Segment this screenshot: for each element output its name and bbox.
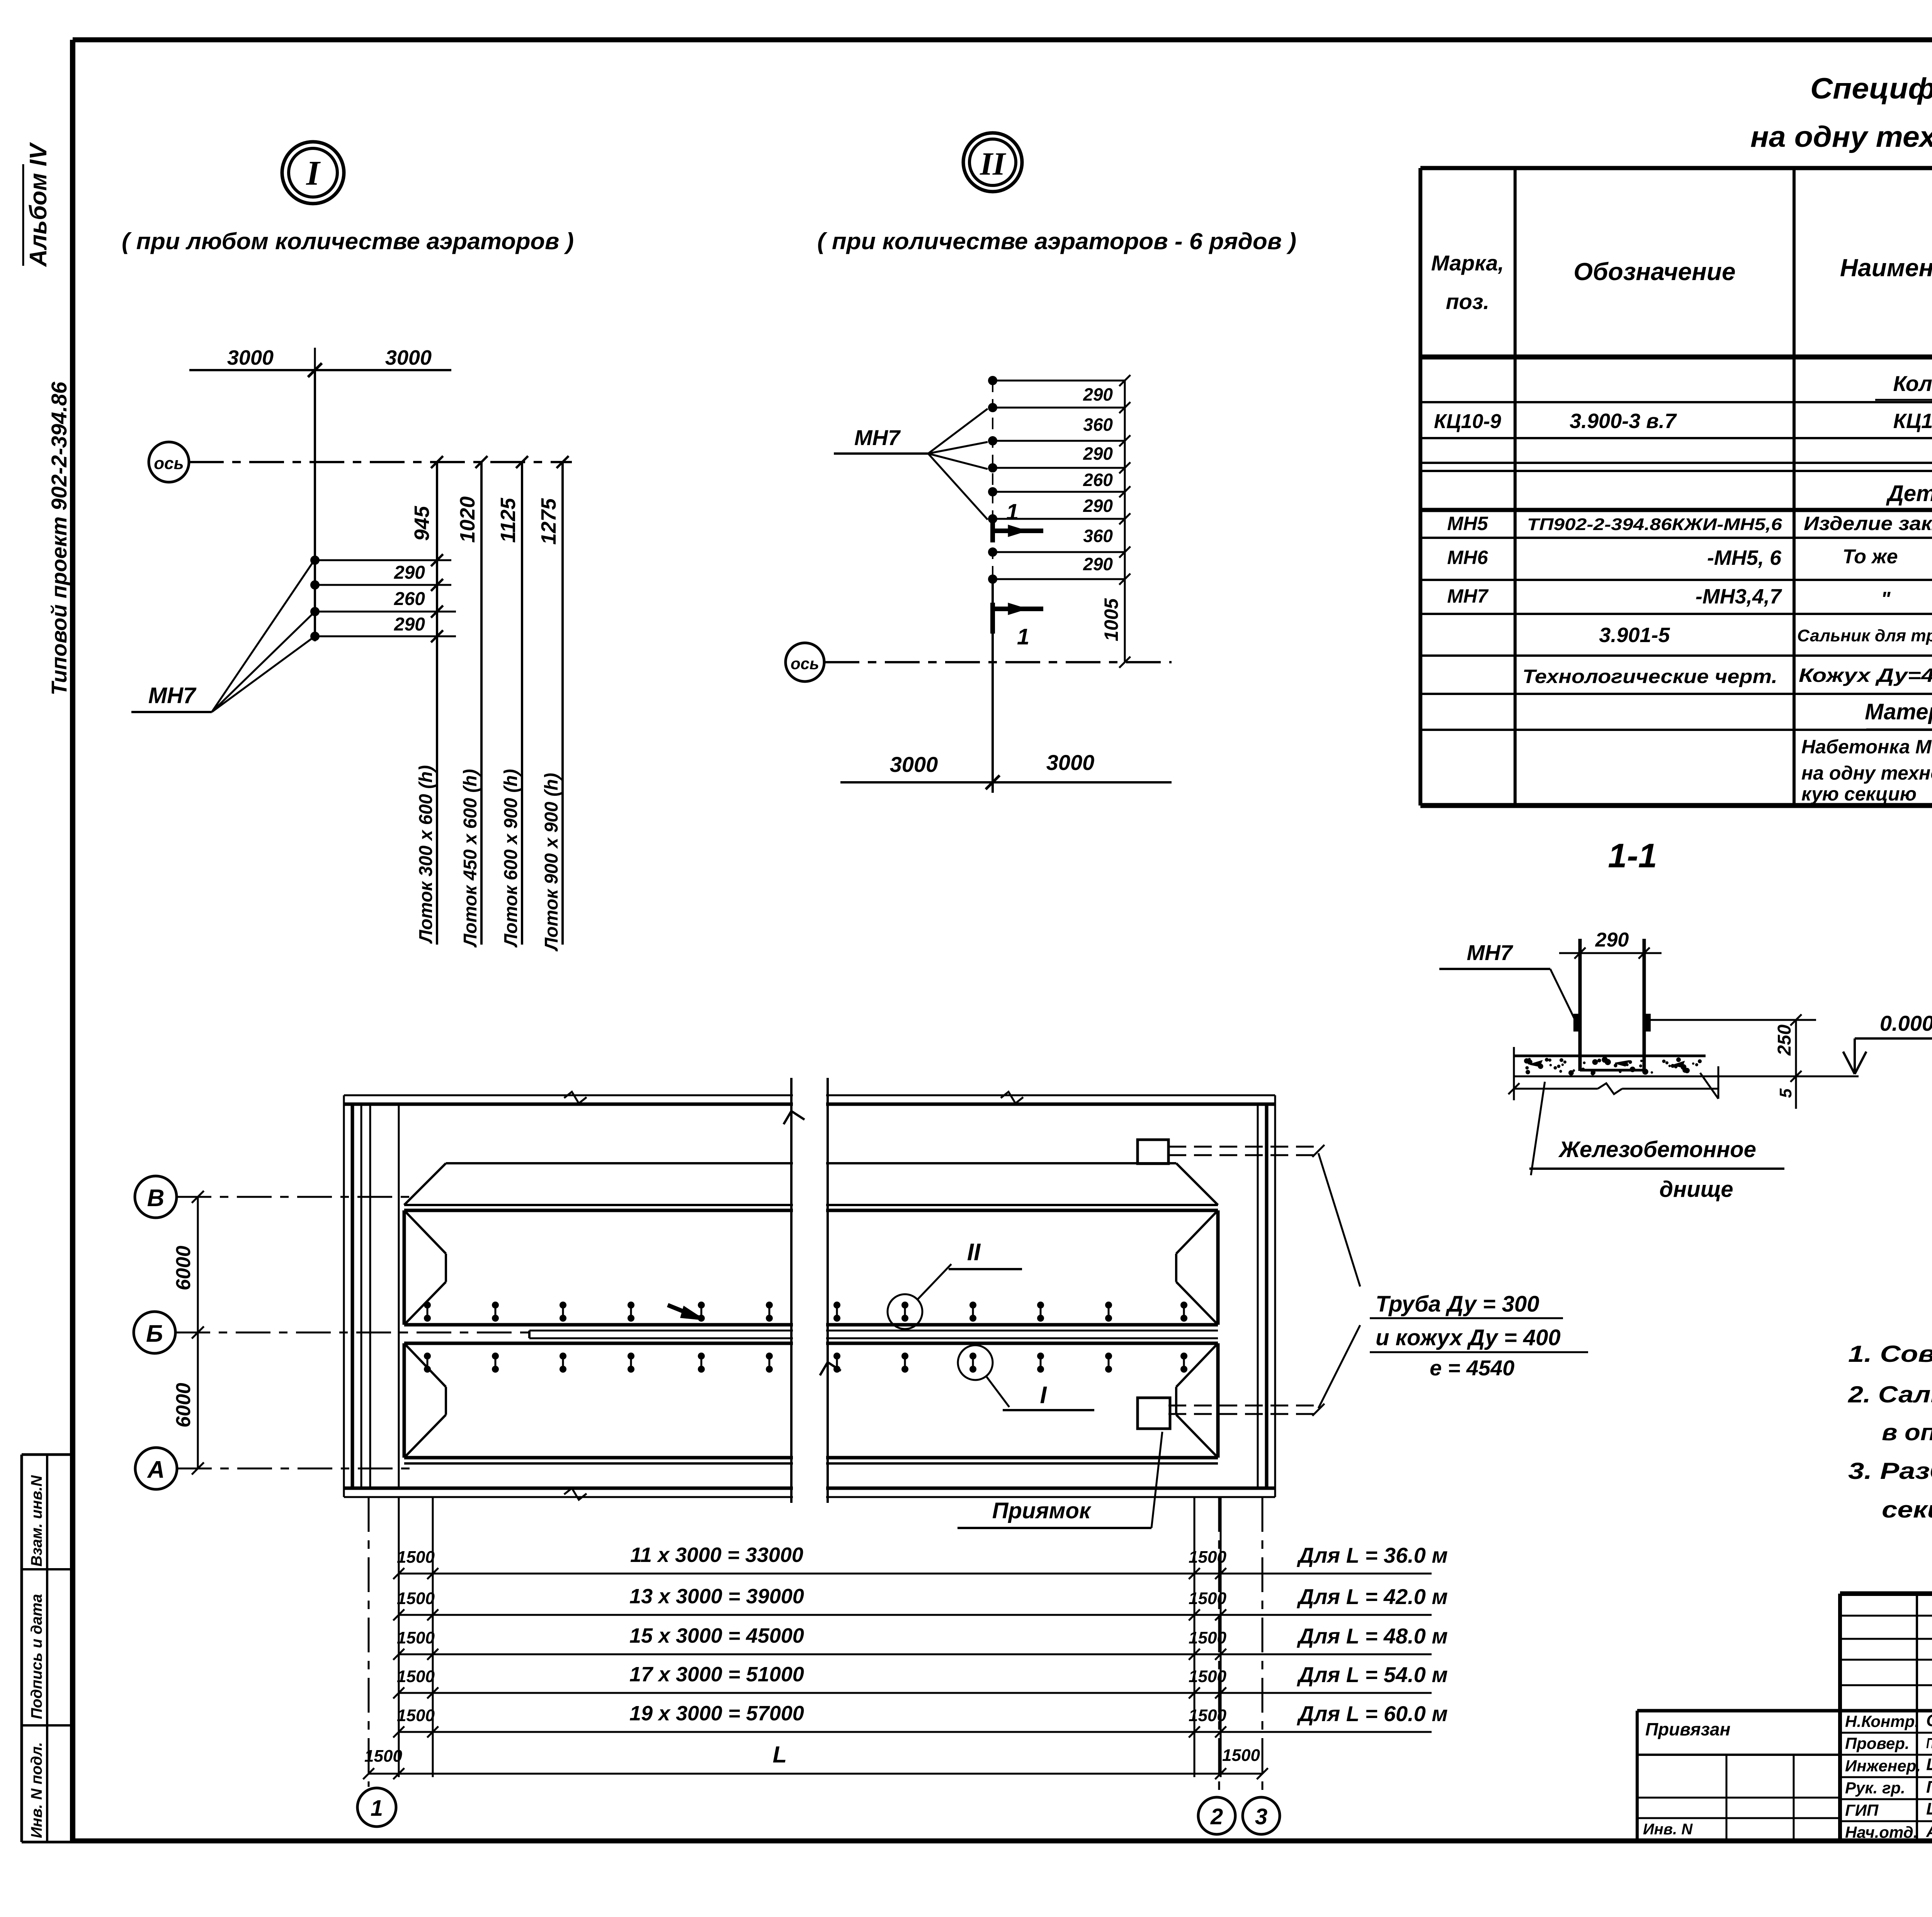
svg-text:I: I [306, 154, 321, 192]
svg-text:( при любом количестве: ( при любом количестве аэраторов ) [122, 228, 574, 254]
svg-text:МН7: МН7 [1447, 585, 1489, 607]
svg-text:1: 1 [1017, 624, 1029, 649]
svg-text:1: 1 [371, 1796, 383, 1821]
svg-text:6000: 6000 [172, 1246, 195, 1290]
svg-text:МН5: МН5 [1447, 513, 1488, 534]
svg-text:260: 260 [1083, 470, 1113, 490]
svg-text:3.901-5: 3.901-5 [1599, 624, 1670, 647]
svg-text:Для L = 54.0 м: Для L = 54.0 м [1297, 1662, 1448, 1687]
svg-text:-МН3,4,7: -МН3,4,7 [1696, 585, 1782, 608]
svg-text:3. Разбивка закладных и: 3. Разбивка закладных изделий для средни… [1848, 1458, 1932, 1484]
svg-text:1-1: 1-1 [1608, 836, 1657, 875]
svg-text:Набетонка М-150: Набетонка М-150 [1801, 736, 1932, 758]
svg-text:В: В [147, 1185, 165, 1212]
svg-text:5: 5 [1776, 1088, 1795, 1098]
svg-text:Н.Контр.: Н.Контр. [1845, 1712, 1919, 1730]
svg-text:17 х 3000 = 51000: 17 х 3000 = 51000 [629, 1663, 804, 1686]
svg-text:А: А [147, 1456, 165, 1483]
svg-text:945: 945 [410, 506, 434, 541]
svg-text:290: 290 [394, 563, 425, 583]
svg-text:Марка,: Марка, [1431, 251, 1504, 275]
svg-text:МН7: МН7 [854, 425, 901, 450]
svg-text:днище: днище [1659, 1177, 1733, 1202]
svg-text:II: II [980, 146, 1007, 182]
svg-text:290: 290 [394, 614, 425, 635]
svg-text:Привязан: Привязан [1645, 1719, 1730, 1739]
svg-text:19 х 3000 = 57000: 19 х 3000 = 57000 [629, 1702, 804, 1725]
svg-text:1. Совместно с данным: 1. Совместно с данным см. лл. КЖ-32,33. [1848, 1341, 1932, 1367]
svg-text:в опалубку при бетониров: в опалубку при бетонировании днища. [1882, 1419, 1932, 1445]
svg-text:I: I [1040, 1382, 1047, 1409]
svg-text:Провер.: Провер. [1845, 1734, 1910, 1752]
svg-text:Гарбуз: Гарбуз [1926, 1778, 1932, 1796]
svg-text:е = 4540: е = 4540 [1430, 1356, 1515, 1380]
svg-text:Цветкова: Цветкова [1926, 1755, 1932, 1774]
svg-text:Лоток 900 х 900 (h): Лоток 900 х 900 (h) [541, 773, 562, 952]
svg-text:Взам. инв.N: Взам. инв.N [28, 1475, 45, 1567]
svg-text:Изделие закладное МН5: Изделие закладное МН5 [1804, 513, 1932, 534]
svg-text:Лоток 300 х 600 (h): Лоток 300 х 600 (h) [416, 765, 436, 944]
svg-text:290: 290 [1595, 929, 1629, 951]
svg-text:0.000: 0.000 [1880, 1011, 1932, 1035]
svg-text:Лоток 450 х 600 (h): Лоток 450 х 600 (h) [460, 769, 481, 948]
svg-text:Инженер.: Инженер. [1845, 1757, 1921, 1775]
svg-text:КЦ10-6: КЦ10-6 [1893, 410, 1932, 433]
svg-text:-МН5, 6: -МН5, 6 [1707, 546, 1782, 569]
svg-text:3: 3 [1255, 1804, 1267, 1829]
svg-text:1500: 1500 [1189, 1628, 1226, 1647]
svg-text:250: 250 [1774, 1025, 1795, 1056]
svg-text:Кожух Ду=400 е=4540: Кожух Ду=400 е=4540 [1799, 664, 1932, 686]
svg-text:Альбом IV: Альбом IV [25, 142, 52, 267]
svg-text:секций аналогична данной: секций аналогична данной. [1882, 1497, 1932, 1523]
svg-text:То же: То же [1842, 546, 1898, 568]
svg-text:Рук. гр.: Рук. гр. [1845, 1779, 1905, 1797]
svg-text:1005: 1005 [1100, 598, 1122, 641]
svg-text:Альтшулер: Альтшулер [1926, 1822, 1932, 1841]
svg-text:Приямок: Приямок [992, 1498, 1092, 1523]
svg-text:290: 290 [1083, 444, 1113, 464]
svg-text:290: 290 [1083, 496, 1113, 516]
svg-text:290: 290 [1083, 384, 1113, 404]
svg-text:ТП902-2-394.86КЖИ-МН5,6: ТП902-2-394.86КЖИ-МН5,6 [1527, 515, 1782, 534]
svg-text:МН7: МН7 [1467, 940, 1514, 965]
svg-text:3000: 3000 [385, 346, 432, 369]
svg-text:1500: 1500 [397, 1548, 435, 1567]
svg-text:Труба Ду = 300: Труба Ду = 300 [1376, 1292, 1539, 1317]
svg-text:3000: 3000 [227, 346, 274, 369]
svg-text:Для L = 36.0 м: Для L = 36.0 м [1297, 1543, 1448, 1567]
svg-text:Железобетонное: Железобетонное [1558, 1137, 1756, 1162]
svg-text:Инв. N подл.: Инв. N подл. [28, 1742, 45, 1838]
svg-text:кую секцию: кую секцию [1801, 783, 1917, 805]
svg-text:Типовой проект 902-2-394.86: Типовой проект 902-2-394.86 [47, 381, 71, 695]
svg-text:1500: 1500 [1189, 1589, 1226, 1608]
svg-text:Технологические черт.: Технологические черт. [1522, 666, 1777, 687]
svg-text:3.900-3 в.7: 3.900-3 в.7 [1570, 410, 1677, 433]
svg-text:Петропавловская: Петропавловская [1926, 1735, 1932, 1752]
svg-text:поз.: поз. [1446, 289, 1490, 314]
svg-text:2: 2 [1210, 1804, 1223, 1829]
svg-text:на одну технологичес-: на одну технологичес- [1801, 762, 1932, 784]
svg-text:1500: 1500 [364, 1747, 402, 1766]
svg-text:11 х 3000 = 33000: 11 х 3000 = 33000 [630, 1543, 803, 1567]
svg-text:Для L = 48.0 м: Для L = 48.0 м [1297, 1624, 1448, 1648]
svg-text:13 х 3000 = 39000: 13 х 3000 = 39000 [629, 1585, 804, 1608]
svg-text:Для L = 60.0 м: Для L = 60.0 м [1297, 1701, 1448, 1726]
svg-text:2. Сальник для тр. Ду=300: 2. Сальник для тр. Ду=300 и кожух Ду= 40… [1848, 1382, 1932, 1407]
svg-text:Подпись и дата: Подпись и дата [28, 1594, 45, 1719]
svg-text:L: L [773, 1742, 787, 1767]
svg-text:15 х 3000 = 45000: 15 х 3000 = 45000 [629, 1624, 804, 1647]
svg-text:( при количестве аэраторов -: ( при количестве аэраторов - 6 рядов ) [817, 228, 1296, 254]
svg-text:Сальник для тр.Ду=300 ек=200: Сальник для тр.Ду=300 ек=200 [1797, 626, 1932, 645]
svg-text:1500: 1500 [1222, 1746, 1260, 1765]
svg-text:Цирков: Цирков [1926, 1800, 1932, 1818]
svg-text:на одну технологическую с: на одну технологическую секцию [1750, 121, 1932, 153]
svg-text:1125: 1125 [497, 498, 520, 543]
svg-text:и кожух Ду = 400: и кожух Ду = 400 [1376, 1325, 1561, 1350]
svg-text:Детали: Детали [1886, 481, 1932, 506]
svg-text:II: II [967, 1239, 981, 1266]
svg-text:Нач.отд.: Нач.отд. [1845, 1823, 1918, 1841]
svg-text:ГИП: ГИП [1845, 1801, 1879, 1819]
svg-text:КЦ10-9: КЦ10-9 [1434, 410, 1501, 433]
svg-text:Материалы: Материалы [1865, 699, 1932, 724]
svg-text:ось: ось [791, 654, 819, 673]
svg-text:1500: 1500 [1189, 1667, 1226, 1686]
svg-text:1500: 1500 [397, 1589, 435, 1608]
svg-text:1: 1 [1006, 500, 1019, 525]
svg-text:ось: ось [154, 454, 184, 473]
svg-text:360: 360 [1083, 526, 1113, 546]
svg-text:Спецификация элементов: Спецификация элементов [1810, 72, 1932, 105]
svg-text:Обозначение: Обозначение [1573, 258, 1735, 286]
svg-text:1500: 1500 [397, 1667, 435, 1686]
svg-text:Инв. N: Инв. N [1643, 1821, 1693, 1838]
svg-text:1500: 1500 [397, 1706, 435, 1725]
svg-text:МН7: МН7 [148, 683, 197, 708]
svg-text:МН6: МН6 [1447, 547, 1488, 568]
svg-text:1500: 1500 [1189, 1548, 1226, 1567]
svg-text:": " [1881, 588, 1891, 610]
svg-text:1275: 1275 [537, 498, 560, 545]
svg-text:1020: 1020 [456, 496, 479, 543]
svg-text:Лоток 600 х 900 (h): Лоток 600 х 900 (h) [501, 769, 521, 948]
svg-text:1500: 1500 [1189, 1706, 1226, 1725]
svg-text:260: 260 [394, 589, 425, 609]
svg-text:Семенова: Семенова [1926, 1711, 1932, 1730]
svg-text:6000: 6000 [172, 1383, 195, 1428]
svg-text:3000: 3000 [890, 752, 938, 777]
svg-text:Кольца: Кольца [1893, 371, 1932, 396]
svg-text:Для L = 42.0 м: Для L = 42.0 м [1297, 1584, 1448, 1609]
svg-text:3000: 3000 [1046, 750, 1095, 775]
svg-text:360: 360 [1083, 415, 1113, 435]
svg-text:Б: Б [146, 1320, 163, 1347]
svg-text:Наименование: Наименование [1840, 254, 1932, 282]
svg-text:290: 290 [1083, 554, 1113, 574]
svg-text:1500: 1500 [397, 1628, 435, 1647]
